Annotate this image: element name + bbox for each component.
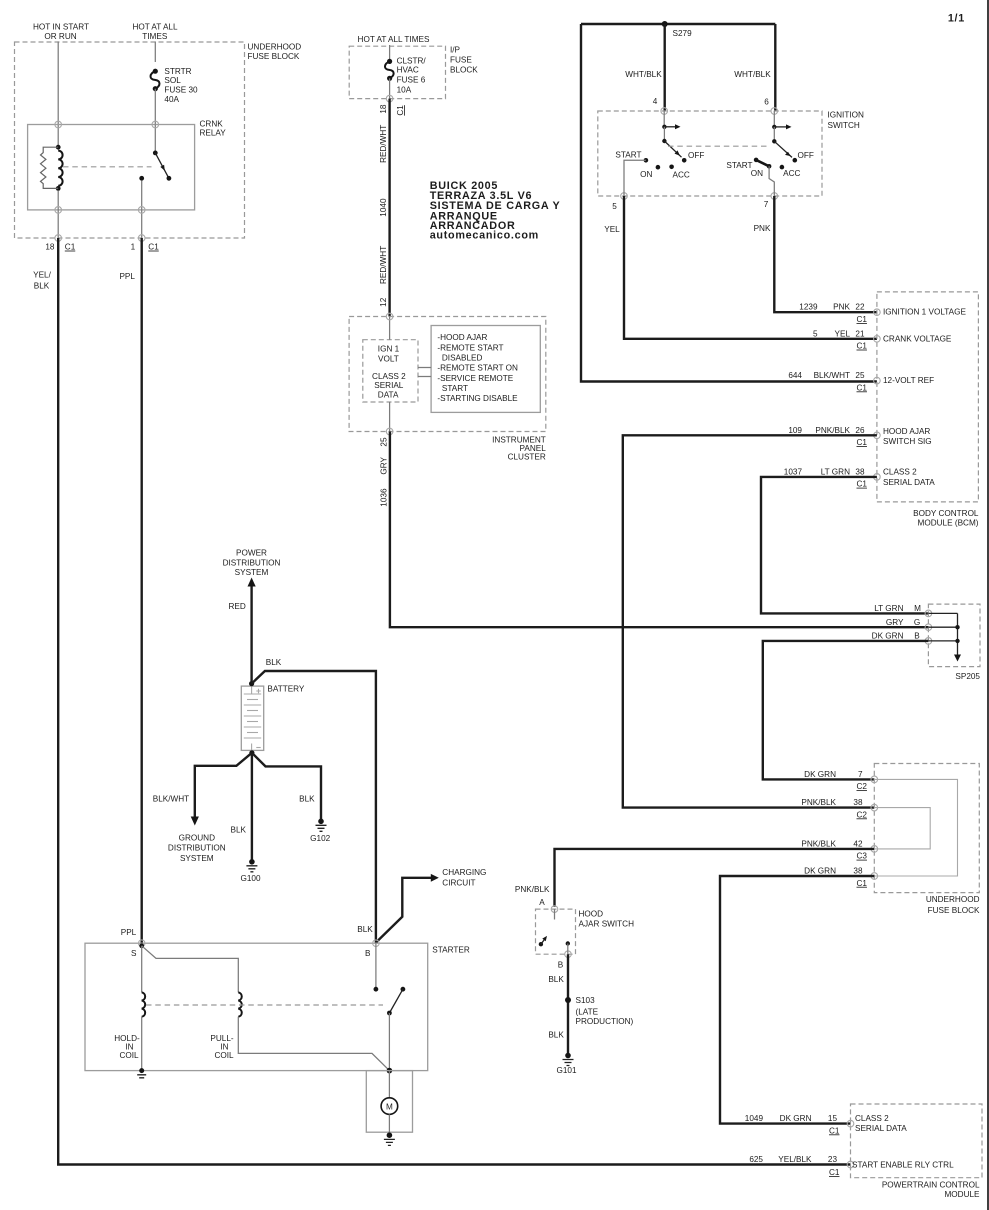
svg-text:C1: C1 [857,480,868,489]
svg-text:IGN 1: IGN 1 [378,345,400,354]
pin 21 loop BCM [874,336,881,343]
wire S to pull-in coil [142,946,239,993]
svg-text:COIL: COIL [214,1051,234,1060]
motor M box [366,1071,412,1133]
wire BLK to S103 [567,954,569,1055]
wire START contact to pin 5 [624,160,646,196]
svg-text:LT GRN: LT GRN [874,604,903,613]
svg-text:-REMOTE START: -REMOTE START [437,343,503,352]
svg-text:C2: C2 [857,810,868,819]
svg-text:ACC: ACC [673,170,690,179]
svg-text:C1: C1 [857,315,868,324]
svg-text:UNDERHOOD: UNDERHOOD [248,42,302,51]
node battery negative [249,750,254,755]
wire contact to motor node [388,1013,390,1071]
svg-text:GROUND: GROUND [179,834,215,843]
hold-in coil ground [139,1068,144,1073]
pin 23 loop PCM [847,1161,854,1168]
svg-text:PNK: PNK [754,224,771,233]
node motor junction [387,1068,393,1074]
wire fuse to box edge [389,78,391,98]
svg-text:BLK: BLK [548,1030,564,1039]
motor M [381,1098,398,1115]
svg-text:PNK/BLK: PNK/BLK [815,426,850,435]
relay switch pivot [153,151,158,156]
svg-text:BLK: BLK [357,925,373,934]
fuse STRTR SOL FUSE 30 40A [153,69,158,74]
svg-text:644: 644 [788,371,802,380]
svg-text:109: 109 [788,426,802,435]
pin A loop hood ajar switch [551,906,558,913]
svg-text:-HOOD AJAR: -HOOD AJAR [437,333,487,342]
svg-text:RED/WHT: RED/WHT [379,125,388,163]
pin 22 loop BCM [874,309,881,316]
svg-text:START ENABLE RLY CTRL: START ENABLE RLY CTRL [852,1161,954,1170]
svg-text:38: 38 [853,867,863,876]
wire DK GRN 38 to PCM [720,876,874,1124]
svg-text:FUSE 6: FUSE 6 [397,76,426,85]
svg-text:C1: C1 [829,1168,840,1177]
svg-text:10A: 10A [397,85,412,94]
svg-text:23: 23 [828,1155,838,1164]
pin S loop starter [138,940,145,947]
svg-text:CRANK VOLTAGE: CRANK VOLTAGE [883,334,952,343]
svg-text:START: START [615,151,641,160]
svg-text:CHARGING: CHARGING [442,868,486,877]
wire hot-at-all-times feed [154,42,156,63]
underhood fuse block box [15,42,245,238]
wire coil bottom to box edge [57,191,59,238]
svg-text:S279: S279 [673,29,693,38]
svg-text:MODULE: MODULE [944,1190,980,1199]
svg-text:C1: C1 [829,1126,840,1135]
svg-text:7: 7 [764,200,769,209]
wire BLK battery to starter B [252,671,376,943]
svg-text:SWITCH SIG: SWITCH SIG [883,437,932,446]
dashed solenoid link [146,1004,383,1006]
internal bus PNK/BLK [874,808,930,849]
svg-text:FUSE BLOCK: FUSE BLOCK [248,52,300,61]
svg-text:I/P: I/P [450,46,461,55]
svg-text:18: 18 [379,104,388,114]
svg-text:G102: G102 [310,834,330,843]
pin loop relay top right [152,121,159,128]
svg-text:M: M [914,604,921,613]
wire hold-in coil to case [141,1017,143,1071]
svg-text:LT GRN: LT GRN [821,467,850,476]
pin 6 loop ignition switch [771,108,778,115]
svg-text:1239: 1239 [799,303,818,312]
wire RED/WHT 1040 down to cluster [388,99,390,317]
wire YEL pin5 to BCM crank voltage [624,196,877,339]
svg-text:WHT/BLK: WHT/BLK [625,70,662,79]
svg-text:YEL: YEL [604,225,620,234]
svg-text:PPL: PPL [121,928,137,937]
node S junction [139,943,144,948]
cluster outer box [349,317,546,432]
svg-text:38: 38 [853,798,863,807]
svg-text:SERIAL DATA: SERIAL DATA [883,478,935,487]
battery [241,686,263,750]
starter box [85,943,428,1070]
svg-text:AJAR SWITCH: AJAR SWITCH [579,919,635,928]
svg-text:26: 26 [855,426,865,435]
svg-text:G: G [914,618,920,627]
svg-text:START: START [442,384,468,393]
svg-text:VOLT: VOLT [378,354,399,363]
svg-text:SERIAL DATA: SERIAL DATA [855,1124,907,1133]
wire PPL pin1 to starter S [140,238,142,943]
cluster message box [431,326,540,413]
svg-text:B: B [558,960,564,969]
svg-text:-REMOTE START ON: -REMOTE START ON [437,364,518,373]
pin 26 loop BCM [874,432,881,439]
pin 25 loop cluster [386,428,393,435]
svg-text:OFF: OFF [688,151,704,160]
svg-text:S103: S103 [576,996,596,1005]
svg-text:-STARTING DISABLE: -STARTING DISABLE [437,394,518,403]
wire to charging circuit [376,878,432,943]
pin 7 loop underhood fuse block [871,776,878,783]
svg-text:DISTRIBUTION: DISTRIBUTION [223,559,281,568]
svg-text:25: 25 [379,437,388,447]
svg-text:SOL: SOL [164,76,181,85]
svg-text:RED/WHT: RED/WHT [379,246,388,284]
svg-text:M: M [386,1103,393,1112]
svg-text:PNK: PNK [833,303,850,312]
svg-text:PNK/BLK: PNK/BLK [801,798,836,807]
right wafer blade to OFF [774,141,792,157]
pull-in coil winding [238,992,241,1016]
svg-text:UNDERHOOD: UNDERHOOD [926,895,980,904]
svg-text:C3: C3 [857,852,868,861]
node coil top [56,145,61,150]
svg-text:1: 1 [131,242,136,251]
I/P fuse block box [349,46,445,98]
pin B loop hood ajar switch [565,951,572,958]
svg-text:STARTER: STARTER [432,946,470,955]
svg-text:BLK: BLK [299,794,315,803]
pin 15 loop PCM [847,1120,854,1127]
svg-text:SYSTEM: SYSTEM [180,854,214,863]
svg-text:1049: 1049 [745,1114,764,1123]
svg-text:CLSTR/: CLSTR/ [397,56,427,65]
pin 5 loop ignition switch [621,193,628,200]
svg-text:1037: 1037 [784,467,803,476]
splice S103 [565,997,571,1003]
svg-text:BLK: BLK [548,975,564,984]
svg-text:S: S [131,949,137,958]
svg-text:42: 42 [853,839,863,848]
svg-text:RED: RED [229,602,246,611]
internal bus DK GRN [874,779,957,876]
hood ajar contacts [539,942,543,946]
svg-text:C1: C1 [857,879,868,888]
svg-text:40A: 40A [164,95,179,104]
svg-text:IGNITION: IGNITION [828,110,864,119]
motor ground [387,1132,393,1138]
svg-text:C1: C1 [396,105,405,116]
svg-text:15: 15 [828,1114,838,1123]
wire splice top run [581,23,775,25]
pin B loop starter [373,940,380,947]
svg-text:GRY: GRY [886,618,904,627]
svg-text:22: 22 [855,303,865,312]
left wafer contacts START ON ACC OFF [644,158,649,163]
svg-text:4: 4 [653,97,658,106]
right wafer contacts START ON ACC OFF [754,158,759,163]
svg-text:1/1: 1/1 [948,13,965,25]
cluster inner dashed box [363,340,418,402]
svg-text:HOT AT ALL: HOT AT ALL [132,23,177,32]
svg-text:C2: C2 [857,782,868,791]
svg-text:CLASS 2: CLASS 2 [855,1114,889,1123]
svg-text:DK GRN: DK GRN [804,867,836,876]
svg-text:SP205: SP205 [955,672,980,681]
svg-text:automecanico.com: automecanico.com [430,229,539,241]
wire ON contact to pin 7 [769,166,774,196]
dashed actuating link relay [63,166,152,168]
dashed mechanical link ignition [668,145,770,147]
svg-text:C1: C1 [65,243,76,252]
link stubs to message box [418,367,431,369]
svg-text:DISABLED: DISABLED [442,354,483,363]
svg-text:HOOD AJAR: HOOD AJAR [883,427,930,436]
pin 42 loop underhood fuse block [871,846,878,853]
wire GRY 1036 to SP205 [390,432,929,628]
pin 18 loop fuse block [55,235,62,242]
wire LT GRN 1037 BCM to SP205 [761,477,928,614]
pin 4 loop ignition switch [661,108,668,115]
wire BLK/WHT to ground distribution [195,753,252,817]
pin 7 loop ignition switch [771,193,778,200]
pin 38 loop BCM [874,474,881,481]
svg-text:DISTRIBUTION: DISTRIBUTION [168,844,226,853]
svg-text:HVAC: HVAC [397,66,419,75]
wire PNK/BLK 109 BCM to fuse block [623,435,877,807]
svg-text:CLUSTER: CLUSTER [508,453,546,462]
svg-text:COIL: COIL [119,1051,139,1060]
svg-text:CLASS 2: CLASS 2 [883,467,917,476]
svg-text:ON: ON [640,170,652,179]
svg-text:POWER: POWER [236,549,267,558]
svg-text:21: 21 [855,329,865,338]
svg-text:C1: C1 [857,383,868,392]
svg-text:5: 5 [813,329,818,338]
pin 25 loop BCM [874,377,881,384]
wire contact to box edge [141,181,143,238]
wire stub into cluster [389,317,391,340]
wire pull-in coil to motor node [238,1017,389,1071]
pin loop relay bottom right [138,207,145,214]
fuse CLSTR/HVAC FUSE 6 10A [387,59,392,64]
svg-text:6: 6 [764,98,769,107]
svg-text:START: START [726,161,752,170]
wire PNK pin7 to BCM ignition 1 voltage [774,196,877,312]
pin 12 loop cluster [386,313,393,320]
wire feed stub [389,45,391,61]
svg-text:G101: G101 [556,1066,576,1075]
svg-text:TIMES: TIMES [142,32,168,41]
svg-text:HOOD: HOOD [579,910,604,919]
svg-text:DATA: DATA [378,390,399,399]
relay CRNK RELAY box [28,125,195,210]
wire hot-in-start feed [57,42,59,148]
node coil bottom [56,186,61,191]
svg-text:SYSTEM: SYSTEM [235,568,269,577]
wire YEL/BLK pin18 to PCM [58,238,850,1165]
svg-text:1040: 1040 [379,198,388,217]
svg-text:POWERTRAIN CONTROL: POWERTRAIN CONTROL [882,1180,980,1189]
hood ajar switch box [536,909,576,954]
svg-text:DK GRN: DK GRN [780,1114,812,1123]
wire PNK/BLK hood ajar to fuse block [555,849,875,907]
svg-text:(LATE: (LATE [576,1008,599,1017]
pin 38 C2 loop underhood fuse block [871,804,878,811]
svg-text:WHT/BLK: WHT/BLK [734,70,771,79]
solenoid contact blade [389,989,403,1013]
ground G101 [565,1053,571,1059]
svg-text:BLK/WHT: BLK/WHT [153,794,189,803]
ignition switch box [598,111,822,196]
svg-text:SWITCH: SWITCH [828,121,860,130]
svg-text:18: 18 [45,242,55,251]
right wafer bridge START-ON [756,160,769,166]
wire WHT/BLK left to pin 4 [664,24,666,111]
page border right edge [987,0,989,1210]
svg-text:B: B [365,949,371,958]
resistor (relay suppression) [41,147,59,188]
svg-text:PNK/BLK: PNK/BLK [515,885,550,894]
pin 1 loop fuse block [138,235,145,242]
svg-text:CRNK: CRNK [200,120,224,129]
svg-text:FUSE: FUSE [450,56,472,65]
svg-text:OR RUN: OR RUN [44,32,76,41]
svg-text:CLASS 2: CLASS 2 [372,372,406,381]
svg-text:BLOCK: BLOCK [450,66,478,75]
svg-text:PANEL: PANEL [520,444,547,453]
pin B loop SP205 [925,638,932,645]
svg-text:BATTERY: BATTERY [267,685,305,694]
svg-text:C1: C1 [148,243,159,252]
left wafer blade to OFF [664,141,681,157]
fuse block box [874,764,979,893]
svg-text:RELAY: RELAY [200,128,227,137]
svg-text:BLK: BLK [266,658,282,667]
relay switch blade [155,153,169,178]
svg-text:ON: ON [751,169,763,178]
svg-text:7: 7 [858,770,863,779]
svg-text:C1: C1 [857,342,868,351]
svg-text:BLK: BLK [34,282,50,291]
svg-text:MODULE (BCM): MODULE (BCM) [918,519,979,528]
pin loop relay top left [55,121,62,128]
svg-text:CIRCUIT: CIRCUIT [442,878,475,887]
left ignition wafer [663,111,665,127]
svg-text:IGNITION 1 VOLTAGE: IGNITION 1 VOLTAGE [883,308,966,317]
svg-text:DK GRN: DK GRN [804,770,836,779]
ground G100 [249,859,255,865]
svg-text:GRY: GRY [379,456,388,474]
svg-text:12: 12 [379,297,388,307]
svg-text:A: A [539,898,545,907]
wire BLK to G102 [252,753,321,822]
svg-text:SERIAL: SERIAL [374,381,404,390]
relay coil winding [58,151,62,186]
pin G loop SP205 [925,624,932,631]
svg-text:YEL: YEL [835,329,851,338]
svg-text:38: 38 [855,467,865,476]
ground G102 [318,819,324,825]
svg-text:PNK/BLK: PNK/BLK [801,839,836,848]
wire stub out of cluster [389,402,391,432]
wire WHT/BLK right to pin 6 [774,24,776,111]
node battery positive [249,681,254,686]
svg-text:HOT IN START: HOT IN START [33,23,89,32]
svg-text:BLK/WHT: BLK/WHT [814,371,850,380]
pin loop relay bottom left [55,207,62,214]
svg-text:FUSE BLOCK: FUSE BLOCK [928,906,980,915]
pin M loop SP205 [925,610,932,617]
svg-text:12-VOLT REF: 12-VOLT REF [883,376,934,385]
svg-text:YEL/: YEL/ [33,271,51,280]
PCM box [851,1104,983,1178]
relay coil wire top [154,125,156,153]
hold-in coil winding [142,992,145,1016]
wire 12-volt ref to BCM [581,24,877,382]
svg-text:G100: G100 [240,874,260,883]
svg-text:625: 625 [749,1155,763,1164]
svg-text:5: 5 [612,202,617,211]
wire S to hold-in coil [141,946,143,993]
relay switch contact [139,176,144,181]
svg-text:DK GRN: DK GRN [872,632,904,641]
wire DK GRN SP205 to fuse block [763,641,929,780]
svg-text:STRTR: STRTR [164,67,191,76]
svg-text:BODY CONTROL: BODY CONTROL [913,509,979,518]
svg-text:25: 25 [855,371,865,380]
svg-text:C1: C1 [857,438,868,447]
splice bus [928,612,957,614]
svg-text:-SERVICE REMOTE: -SERVICE REMOTE [437,374,513,383]
pin 38 C1 loop underhood fuse block [871,873,878,880]
SP205 box [928,604,980,667]
solenoid contact from B [375,943,377,989]
svg-text:FUSE 30: FUSE 30 [164,85,198,94]
svg-text:BLK: BLK [231,826,247,835]
right ignition wafer [773,111,775,127]
svg-text:PRODUCTION): PRODUCTION) [576,1017,634,1026]
svg-text:HOT AT ALL TIMES: HOT AT ALL TIMES [358,35,430,44]
svg-text:1036: 1036 [379,488,388,507]
wire fuse to relay [154,89,156,125]
svg-text:YEL/BLK: YEL/BLK [778,1155,812,1164]
BCM box [877,292,979,502]
wire BLK to G100 [251,753,253,862]
svg-text:OFF: OFF [798,151,814,160]
svg-text:ACC: ACC [783,169,800,178]
switch stub [554,909,556,919]
node S279 [662,21,668,27]
svg-text:PPL: PPL [119,272,135,281]
svg-text:B: B [914,632,920,641]
